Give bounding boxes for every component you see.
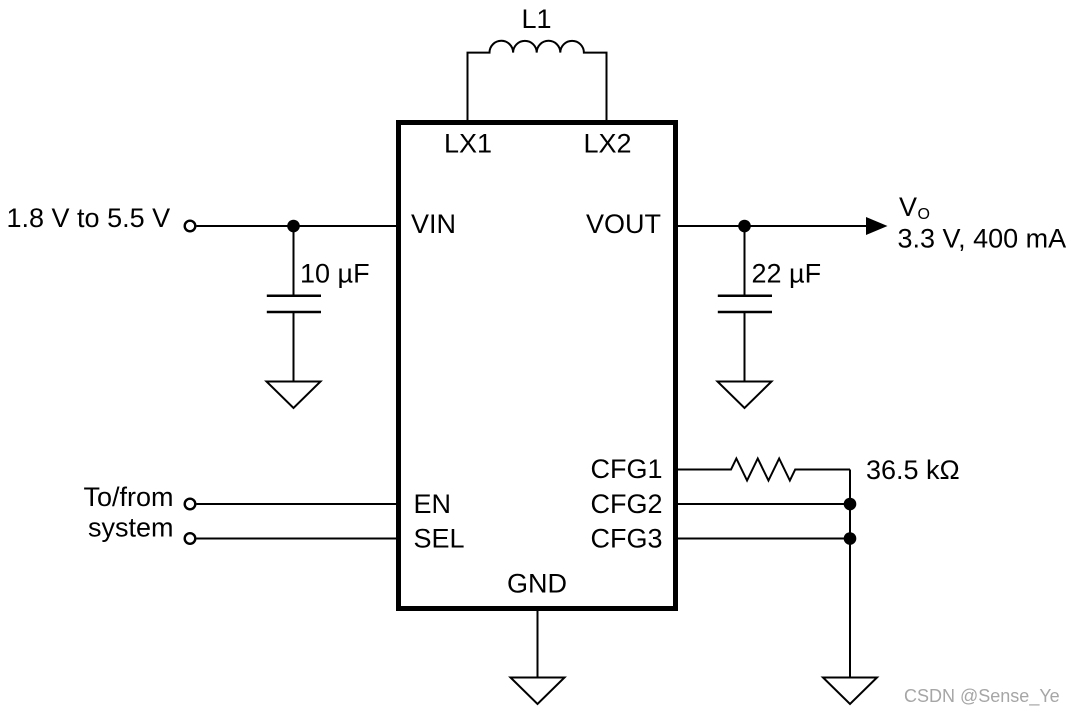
svg-text:V: V — [899, 192, 917, 222]
svg-text:10 µF: 10 µF — [300, 259, 370, 289]
svg-text:CFG2: CFG2 — [591, 489, 663, 519]
svg-text:CSDN @Sense_Ye: CSDN @Sense_Ye — [904, 686, 1060, 707]
svg-text:GND: GND — [507, 569, 567, 599]
svg-text:L1: L1 — [521, 4, 551, 34]
svg-text:VOUT: VOUT — [586, 209, 661, 239]
svg-text:EN: EN — [414, 489, 452, 519]
svg-text:36.5 kΩ: 36.5 kΩ — [866, 455, 960, 485]
svg-text:To/from: To/from — [83, 482, 173, 512]
svg-text:LX2: LX2 — [584, 129, 632, 159]
svg-text:system: system — [88, 513, 174, 543]
svg-text:LX1: LX1 — [444, 129, 492, 159]
svg-text:22 µF: 22 µF — [752, 259, 822, 289]
svg-text:CFG3: CFG3 — [591, 523, 663, 553]
svg-text:VIN: VIN — [411, 209, 456, 239]
svg-text:1.8 V to 5.5 V: 1.8 V to 5.5 V — [7, 203, 171, 233]
svg-text:CFG1: CFG1 — [591, 454, 663, 484]
svg-text:O: O — [918, 206, 930, 223]
svg-text:3.3 V, 400 mA: 3.3 V, 400 mA — [898, 224, 1067, 254]
svg-text:SEL: SEL — [414, 523, 465, 553]
